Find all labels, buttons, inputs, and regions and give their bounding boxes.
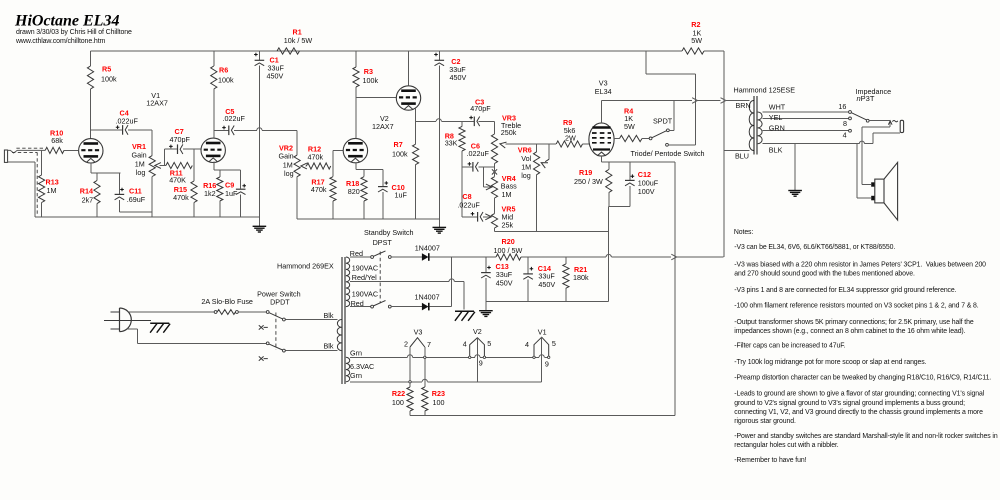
label 1N4007 bottom bbox=[415, 293, 440, 302]
label R12 bbox=[308, 145, 321, 154]
svg-text:2k7: 2k7 bbox=[82, 195, 94, 204]
OT core bbox=[754, 96, 757, 155]
svg-text:Blk: Blk bbox=[324, 341, 334, 350]
ground bus V1 bbox=[35, 216, 260, 218]
VR4 x mark bbox=[492, 169, 497, 174]
wire to diode top bbox=[391, 256, 422, 258]
wire grid V1a bbox=[64, 149, 79, 151]
svg-text:Blk: Blk bbox=[324, 311, 334, 320]
value C6 bbox=[467, 149, 490, 158]
label 63VAC bbox=[350, 362, 374, 371]
hop chevron B+ bbox=[671, 254, 676, 260]
label standby switch bbox=[364, 228, 414, 237]
value C3 bbox=[470, 104, 491, 113]
label C6 bbox=[471, 141, 480, 150]
value R6 bbox=[218, 75, 234, 84]
wire VR5 bottom bbox=[494, 228, 496, 231]
label R9 bbox=[563, 118, 572, 127]
svg-text:820: 820 bbox=[348, 187, 360, 196]
label Grn top bbox=[350, 348, 362, 357]
SPDT upper contact bbox=[667, 101, 675, 132]
capacitor C2 bbox=[434, 51, 444, 227]
resistor R7 bbox=[413, 144, 419, 164]
wire R13 branch bbox=[41, 150, 43, 217]
VR4 wiper tie bbox=[483, 167, 492, 190]
svg-text:C12: C12 bbox=[638, 170, 651, 179]
label BRN bbox=[736, 101, 751, 110]
svg-text:.022uF: .022uF bbox=[116, 116, 139, 125]
wire heater bus top bbox=[350, 355, 549, 358]
label V1 heater bbox=[538, 328, 547, 337]
resistor R10 bbox=[45, 147, 64, 153]
value C7 bbox=[170, 135, 191, 144]
svg-text:-Try 100k log midrange pot for: -Try 100k log midrange pot for more scoo… bbox=[734, 359, 926, 366]
value R11 bbox=[169, 176, 186, 185]
svg-text:R5: R5 bbox=[102, 64, 111, 73]
wire R16 leads bbox=[219, 170, 221, 217]
svg-text:C11: C11 bbox=[129, 186, 142, 195]
wire HV top bbox=[350, 256, 371, 258]
value R7 bbox=[392, 149, 408, 158]
speaker bbox=[875, 162, 898, 220]
svg-text:7: 7 bbox=[427, 340, 431, 349]
value R9 bbox=[564, 126, 576, 143]
wire V3 plate bbox=[601, 101, 603, 123]
label power switch bbox=[257, 290, 301, 299]
label 4 bbox=[843, 131, 847, 140]
svg-text:.022uF: .022uF bbox=[467, 149, 490, 158]
wire plate line V1a bbox=[91, 129, 153, 131]
resistor R21 bbox=[563, 264, 569, 288]
label R5 bbox=[102, 64, 111, 73]
hop CT bbox=[449, 279, 454, 282]
wire R19 C12 join bbox=[609, 206, 630, 208]
svg-text:R22: R22 bbox=[392, 389, 405, 398]
chassis ground CT bbox=[455, 311, 475, 321]
standby blade top bbox=[373, 251, 385, 257]
svg-text:12AX7: 12AX7 bbox=[146, 99, 168, 108]
label Blk bottom bbox=[324, 341, 334, 350]
wire V2a cathode bbox=[356, 163, 383, 170]
label C8 bbox=[462, 192, 471, 201]
svg-text:R7: R7 bbox=[394, 140, 403, 149]
wire V2a grid bbox=[333, 151, 343, 166]
wire to SPDT pole bbox=[642, 138, 649, 140]
wire R6 branch bbox=[213, 51, 215, 138]
value R20 bbox=[494, 246, 523, 255]
label VR3 bbox=[502, 114, 516, 123]
svg-text:ground to V2's signal ground t: ground to V2's signal ground to V3's sig… bbox=[734, 400, 965, 407]
wire B+ line bbox=[452, 256, 724, 258]
wire hot bbox=[128, 311, 215, 313]
label impedance bbox=[856, 87, 892, 96]
contact 16 bbox=[849, 111, 852, 114]
resistor R20 bbox=[496, 254, 521, 260]
svg-text:100k: 100k bbox=[101, 74, 117, 83]
svg-text:-V3 pins 1 and 8 are connected: -V3 pins 1 and 8 are connected for EL34 … bbox=[734, 287, 956, 294]
label VR6 bbox=[518, 146, 532, 155]
potentiometer VR5 bbox=[491, 214, 497, 228]
svg-text:25k: 25k bbox=[502, 221, 514, 230]
svg-text:GRN: GRN bbox=[769, 123, 785, 132]
label R19 bbox=[579, 168, 592, 177]
V3 heater arch bbox=[410, 338, 425, 347]
capacitor C5 bbox=[222, 126, 234, 136]
svg-text:BRN: BRN bbox=[736, 101, 751, 110]
svg-text:Standby Switch: Standby Switch bbox=[364, 228, 414, 237]
wire jack sleeve bbox=[8, 162, 35, 217]
svg-text:-V3 can be EL34, 6V6, 6L6/KT66: -V3 can be EL34, 6V6, 6L6/KT66/5881, or … bbox=[734, 244, 895, 251]
value R12 bbox=[308, 153, 324, 162]
svg-text:Gain: Gain bbox=[132, 151, 147, 160]
svg-text:HiOctane EL34: HiOctane EL34 bbox=[14, 12, 119, 29]
label V2 pin9 bbox=[479, 359, 483, 368]
wire R22 R23 bottom bbox=[410, 411, 675, 416]
potentiometer VR2 bbox=[294, 155, 300, 177]
label 8 bbox=[843, 119, 847, 128]
wire heater bus bottom bbox=[350, 379, 542, 382]
svg-text:100k: 100k bbox=[363, 76, 379, 85]
wire gnd lead bbox=[485, 302, 487, 311]
wire R3 branch bbox=[355, 51, 357, 138]
resistor R22 bbox=[407, 387, 413, 411]
value VR5 bbox=[502, 213, 514, 230]
label R18 bbox=[346, 179, 359, 188]
label C10 bbox=[392, 183, 405, 192]
wire R19 bottom bbox=[608, 193, 610, 207]
label VR1 bbox=[132, 142, 146, 151]
wire neutral bbox=[127, 329, 266, 343]
svg-text:5: 5 bbox=[487, 339, 491, 348]
svg-text:R23: R23 bbox=[432, 389, 445, 398]
SPDT lower contact bbox=[666, 143, 696, 146]
label C9 bbox=[225, 181, 234, 190]
svg-text:470k: 470k bbox=[311, 185, 327, 194]
jack body bbox=[900, 120, 903, 132]
label R21 bbox=[574, 265, 587, 274]
wire VR4 bottom bbox=[494, 198, 496, 214]
svg-text:470pF: 470pF bbox=[470, 104, 491, 113]
wire C6 line bbox=[462, 166, 495, 168]
label C5 bbox=[225, 107, 234, 116]
svg-text:SPDT: SPDT bbox=[653, 117, 673, 126]
svg-text:DPDT: DPDT bbox=[270, 298, 290, 307]
tube V2a bbox=[343, 138, 367, 162]
plug prongs bbox=[104, 312, 151, 329]
svg-text:DPST: DPST bbox=[373, 238, 393, 247]
label RedYel bbox=[352, 273, 377, 282]
svg-text:190VAC: 190VAC bbox=[352, 290, 378, 299]
OT primary coil bbox=[749, 101, 753, 151]
svg-text:Hammond 269EX: Hammond 269EX bbox=[277, 262, 334, 271]
subtitle line 2 bbox=[15, 38, 106, 45]
resistor R14 bbox=[94, 181, 100, 204]
resistor R9 bbox=[556, 141, 582, 147]
wire VR1 top bbox=[151, 130, 153, 156]
tube V3 EL34 bbox=[589, 123, 614, 156]
label C3 bbox=[475, 98, 484, 107]
wire rect join bbox=[451, 257, 453, 307]
label fuse bbox=[201, 297, 253, 306]
impedance blade bbox=[851, 113, 867, 120]
svg-text:log: log bbox=[521, 171, 531, 180]
svg-text:-100 ohm filament reference re: -100 ohm filament reference resistors mo… bbox=[734, 302, 978, 309]
PT heater coil bbox=[346, 357, 350, 382]
svg-text:-Leads to ground are shown to: -Leads to ground are shown to give a fla… bbox=[734, 391, 984, 398]
svg-text:BLU: BLU bbox=[735, 152, 749, 161]
resistor R19 bbox=[606, 170, 612, 193]
wire V3 grid bbox=[583, 143, 590, 145]
svg-text:450V: 450V bbox=[538, 280, 555, 289]
shield dashed bbox=[12, 148, 44, 216]
potentiometer VR1 bbox=[149, 156, 155, 177]
V2 heater arch bbox=[470, 338, 485, 358]
potentiometer VR6 bbox=[534, 152, 540, 175]
wire V2b cathode bbox=[415, 108, 417, 122]
OT secondary coil bbox=[758, 112, 762, 144]
svg-text:connecting V1, V2, and V3 grou: connecting V1, V2, and V3 ground directl… bbox=[734, 409, 983, 416]
wire BLK bbox=[762, 143, 873, 145]
label SPDT bbox=[653, 117, 673, 126]
svg-text:Hammond 125ESE: Hammond 125ESE bbox=[734, 85, 796, 94]
wire BLU bbox=[724, 150, 749, 152]
wire plate line bbox=[602, 100, 750, 102]
svg-text:V2: V2 bbox=[473, 327, 482, 336]
svg-text:R19: R19 bbox=[579, 168, 592, 177]
wire V1a cathode bbox=[91, 163, 121, 173]
svg-text:.022uF: .022uF bbox=[223, 114, 246, 123]
svg-text:2: 2 bbox=[404, 340, 408, 349]
svg-text:1M: 1M bbox=[47, 186, 57, 195]
ground bus V2 bbox=[297, 218, 439, 220]
label WHT bbox=[769, 103, 786, 112]
wire V1b cathode bbox=[214, 162, 241, 170]
wire B+ right drop bbox=[723, 51, 725, 257]
label R13 bbox=[46, 177, 59, 186]
resistor R23 bbox=[422, 387, 428, 411]
power pole bottom bbox=[266, 342, 269, 345]
wire R17 leads bbox=[332, 166, 334, 219]
label C12 bbox=[638, 170, 651, 179]
svg-text:6.3VAC: 6.3VAC bbox=[350, 362, 374, 371]
SPDT pole dot bbox=[649, 137, 652, 140]
wire VR3 bottom bbox=[494, 164, 496, 167]
resistor R3 bbox=[353, 67, 359, 87]
resistor R15 bbox=[191, 181, 197, 203]
label 190VAC 1 bbox=[352, 264, 378, 273]
VR2 wiper arrow bbox=[301, 163, 307, 169]
value R13 bbox=[47, 186, 57, 195]
wire center tap bbox=[350, 282, 464, 310]
wire R18 leads bbox=[363, 170, 365, 219]
value VR4 bbox=[501, 182, 517, 200]
hop chevron 1 bbox=[692, 98, 697, 104]
svg-text:1uF: 1uF bbox=[395, 191, 408, 200]
capacitor C11 bbox=[115, 173, 153, 212]
label V2 bbox=[372, 114, 394, 131]
label R15 bbox=[174, 185, 187, 194]
label Grn bottom bbox=[350, 371, 362, 380]
ground symbol C2 bbox=[433, 227, 447, 233]
svg-text:100: 100 bbox=[433, 398, 445, 407]
value C5 bbox=[223, 114, 246, 123]
capacitor C6 bbox=[468, 162, 479, 172]
svg-text:8: 8 bbox=[843, 119, 847, 128]
wire R14 leads bbox=[96, 173, 98, 217]
svg-text:BLK: BLK bbox=[769, 146, 783, 155]
svg-text:190VAC: 190VAC bbox=[352, 264, 378, 273]
svg-text:2A Slo-Blo Fuse: 2A Slo-Blo Fuse bbox=[201, 297, 253, 306]
svg-text:5W: 5W bbox=[691, 36, 702, 45]
label YEL bbox=[769, 113, 783, 122]
label VR2 bbox=[279, 144, 293, 153]
wire R15 leads bbox=[193, 166, 195, 218]
wire jack tip line bbox=[869, 120, 891, 122]
wire R11 right bbox=[193, 149, 195, 165]
PT HV coil bbox=[346, 257, 350, 307]
svg-text:9: 9 bbox=[479, 359, 483, 368]
svg-text:16: 16 bbox=[838, 102, 846, 111]
svg-text:450V: 450V bbox=[496, 278, 513, 287]
value C10 bbox=[395, 191, 408, 200]
svg-text:100V: 100V bbox=[638, 187, 655, 196]
wire screen lead bbox=[614, 138, 619, 140]
svg-text:180k: 180k bbox=[573, 273, 589, 282]
label R3 bbox=[364, 67, 373, 76]
jack tip spring bbox=[888, 120, 897, 127]
label V1 pin9 bbox=[545, 360, 549, 369]
svg-text:470pF: 470pF bbox=[170, 135, 191, 144]
wire WHT bbox=[762, 111, 848, 113]
label 16 bbox=[838, 102, 846, 111]
label V3 heater bbox=[414, 328, 423, 337]
standby contact bottom bbox=[388, 305, 391, 308]
value R21 bbox=[573, 273, 589, 282]
svg-text:33K: 33K bbox=[445, 139, 458, 148]
standby pole bottom bbox=[371, 305, 374, 308]
label triode pentode switch bbox=[631, 149, 705, 158]
hop over C1 bbox=[257, 128, 262, 131]
value R1 bbox=[284, 36, 313, 45]
svg-text:68k: 68k bbox=[51, 136, 63, 145]
svg-text:12AX7: 12AX7 bbox=[372, 122, 394, 131]
svg-text:100k: 100k bbox=[218, 75, 234, 84]
wire V2b grid line bbox=[356, 97, 396, 99]
value R15 bbox=[173, 193, 189, 202]
wire BLK to speaker bbox=[857, 144, 871, 198]
ground symbol filter bbox=[479, 311, 493, 317]
resistor R18 bbox=[361, 177, 367, 201]
standby pole top bbox=[371, 256, 374, 259]
wire jack sleeve bbox=[873, 133, 900, 144]
svg-text:4: 4 bbox=[463, 339, 467, 348]
label R20 bbox=[502, 237, 515, 246]
svg-text:5W: 5W bbox=[624, 122, 635, 131]
wire R8 top bbox=[461, 121, 463, 126]
label pin7 bbox=[427, 340, 431, 349]
resistor R16 bbox=[217, 177, 223, 201]
wire VR1 wiper up bbox=[163, 149, 165, 165]
value R2 bbox=[691, 28, 702, 44]
label C13 bbox=[496, 262, 509, 271]
label C1 bbox=[270, 55, 279, 64]
svg-text:-Output transformer shows 5K p: -Output transformer shows 5K primary con… bbox=[734, 319, 974, 326]
svg-text:-V3 was biased with a 220 ohm: -V3 was biased with a 220 ohm resistor i… bbox=[734, 261, 986, 268]
VR6 wiper bbox=[541, 144, 549, 168]
svg-text:250 / 3W: 250 / 3W bbox=[574, 177, 603, 186]
capacitor C13 bbox=[481, 257, 491, 302]
standby gang dashed bbox=[379, 252, 381, 304]
wire filter gnd bus bbox=[486, 301, 609, 303]
power contact bottom bbox=[283, 349, 286, 352]
svg-text:V3: V3 bbox=[414, 328, 423, 337]
value VR1 bbox=[132, 151, 147, 177]
resistor R12 bbox=[306, 163, 330, 169]
hop over C2 bbox=[436, 119, 441, 122]
wire jack tip bbox=[8, 150, 46, 153]
label R14 bbox=[80, 187, 93, 196]
potentiometer VR4 bbox=[491, 177, 497, 198]
label 190VAC 2 bbox=[352, 290, 378, 299]
wire V3 pin2 bbox=[409, 347, 411, 387]
label C14 bbox=[538, 264, 551, 273]
label V1 pin4 bbox=[525, 340, 529, 349]
svg-text:impedances shown (e.g., connec: impedances shown (e.g., connect an 8 ohm… bbox=[734, 328, 965, 335]
wire OT ground bbox=[794, 144, 796, 191]
value C1 bbox=[267, 64, 285, 81]
wire R19 top bbox=[608, 162, 610, 170]
svg-text:Red: Red bbox=[351, 299, 364, 308]
capacitor C9 bbox=[236, 170, 246, 217]
wire R21 leads bbox=[565, 257, 567, 302]
contact 8 bbox=[849, 117, 852, 120]
wire tone bottom bbox=[495, 230, 609, 232]
tube V1a bbox=[79, 139, 103, 163]
wire C8 line bbox=[462, 216, 490, 218]
resistor R17 bbox=[330, 177, 336, 201]
label GRN bbox=[769, 123, 785, 132]
svg-text:V1: V1 bbox=[538, 328, 547, 337]
capacitor C14 bbox=[523, 257, 533, 302]
wire fuse to switch bbox=[238, 311, 266, 313]
fuse bbox=[214, 310, 238, 315]
ground symbol OT bbox=[788, 191, 802, 197]
value R14 bbox=[82, 195, 94, 204]
svg-text:450V: 450V bbox=[267, 72, 284, 81]
svg-text:4: 4 bbox=[843, 131, 847, 140]
wire V3 cathode bbox=[602, 156, 675, 162]
wire to PT bottom bbox=[285, 350, 337, 352]
AC plug bbox=[120, 308, 132, 332]
svg-text:Red/Yel: Red/Yel bbox=[352, 273, 377, 282]
wire screen drop bbox=[695, 74, 697, 145]
resistor R2 bbox=[682, 48, 704, 54]
label R1 bbox=[293, 27, 302, 36]
heater pin dots bbox=[409, 356, 550, 383]
input jack body bbox=[4, 150, 7, 162]
svg-text:2W: 2W bbox=[565, 133, 576, 142]
label V2 heater bbox=[473, 327, 482, 336]
svg-text:1N4007: 1N4007 bbox=[415, 293, 440, 302]
value R22 bbox=[392, 398, 404, 407]
capacitor C4 bbox=[116, 125, 128, 135]
label R4 bbox=[624, 106, 633, 115]
label C2 bbox=[451, 57, 460, 66]
label 1N4007 top bbox=[415, 244, 440, 253]
svg-text:R6: R6 bbox=[219, 65, 228, 74]
wire R7 leads bbox=[415, 121, 417, 219]
value R10 bbox=[51, 136, 63, 145]
